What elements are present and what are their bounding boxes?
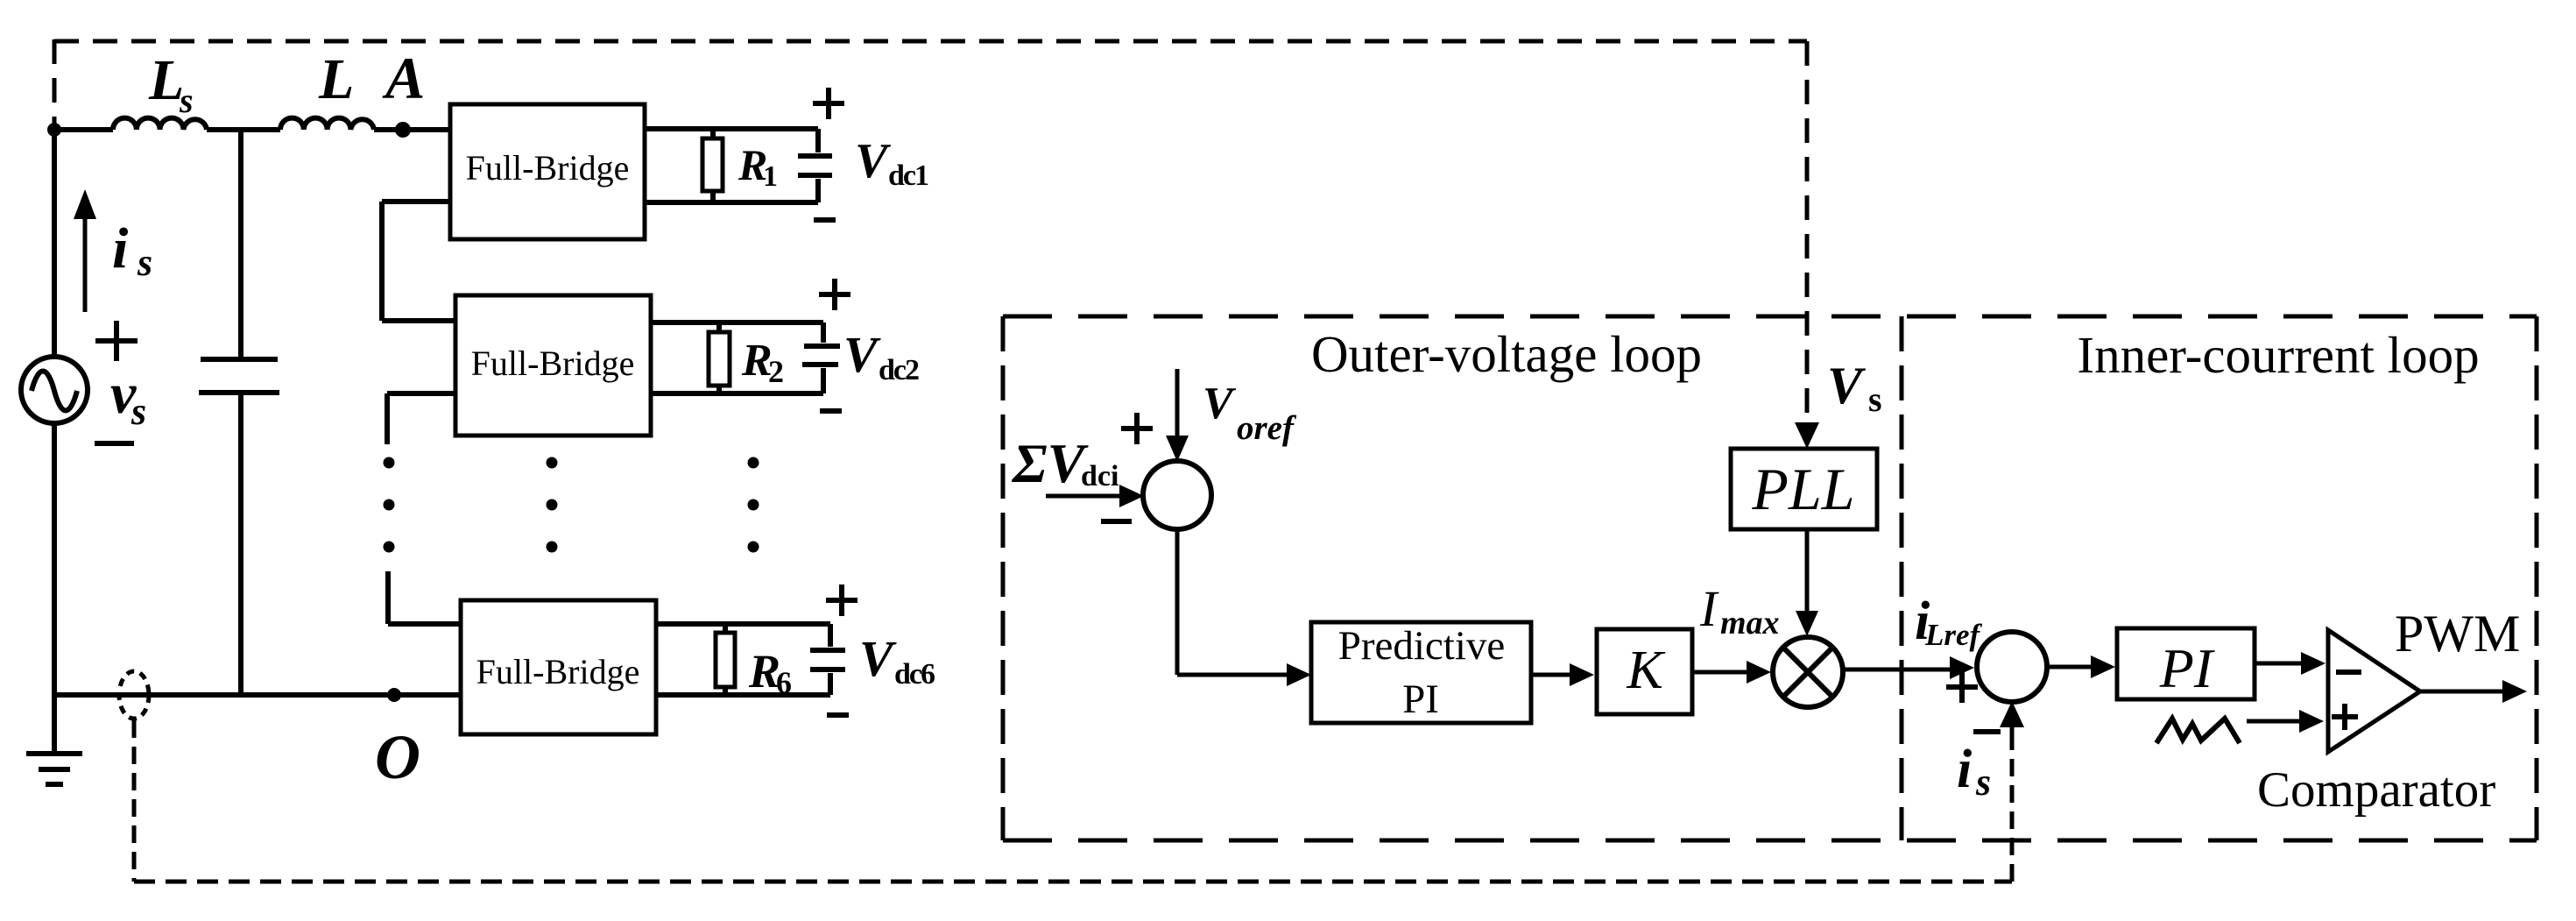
- svg-text:s: s: [137, 241, 152, 284]
- svg-text:O: O: [375, 722, 420, 792]
- svg-text:Inner-courrent loop: Inner-courrent loop: [2077, 326, 2479, 384]
- svg-text:Full-Bridge: Full-Bridge: [476, 652, 640, 691]
- svg-text:i: i: [1957, 740, 1972, 799]
- svg-text:Predictive: Predictive: [1338, 623, 1506, 669]
- svg-text:V: V: [843, 326, 881, 383]
- svg-text:V: V: [1827, 357, 1867, 414]
- svg-text:max: max: [1720, 605, 1780, 641]
- svg-text:PLL: PLL: [1751, 456, 1854, 522]
- svg-text:V: V: [1203, 379, 1237, 429]
- svg-text:PWM: PWM: [2395, 605, 2520, 662]
- svg-text:oref: oref: [1237, 409, 1297, 447]
- svg-text:s: s: [1868, 379, 1882, 419]
- svg-text:dc1: dc1: [888, 159, 928, 192]
- svg-text:Full-Bridge: Full-Bridge: [466, 148, 630, 188]
- svg-text:Full-Bridge: Full-Bridge: [471, 344, 635, 383]
- svg-text:dci: dci: [1081, 460, 1119, 492]
- svg-text:s: s: [179, 81, 194, 120]
- svg-text:PI: PI: [1402, 677, 1439, 722]
- svg-text:PI: PI: [2159, 637, 2215, 699]
- svg-text:s: s: [1975, 761, 1991, 804]
- svg-text:2: 2: [768, 354, 784, 389]
- svg-text:I: I: [1699, 580, 1719, 637]
- svg-text:K: K: [1626, 641, 1666, 700]
- svg-text:1: 1: [763, 160, 778, 193]
- svg-text:Outer-voltage loop: Outer-voltage loop: [1311, 325, 1702, 383]
- svg-text:6: 6: [776, 665, 792, 700]
- svg-text:A: A: [382, 45, 425, 111]
- svg-text:s: s: [131, 390, 146, 433]
- svg-text:dc2: dc2: [879, 354, 919, 386]
- svg-text:dc6: dc6: [894, 658, 935, 691]
- svg-text:i: i: [112, 216, 129, 280]
- svg-text:Comparator: Comparator: [2257, 762, 2495, 818]
- svg-text:ΣV: ΣV: [1011, 432, 1090, 494]
- svg-text:V: V: [855, 134, 892, 188]
- svg-text:L: L: [318, 47, 354, 111]
- svg-text:Lref: Lref: [1924, 618, 1983, 652]
- svg-text:V: V: [859, 630, 897, 687]
